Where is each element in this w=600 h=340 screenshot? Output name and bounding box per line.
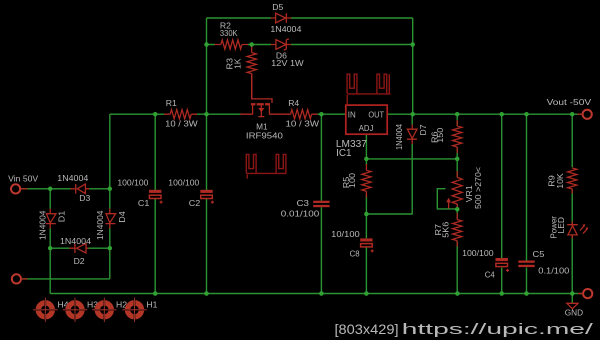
diode D7 xyxy=(394,124,428,150)
zener diode D6 xyxy=(271,39,305,68)
svg-text:C2: C2 xyxy=(189,198,201,208)
LED power xyxy=(548,216,588,239)
resistor R4 xyxy=(285,98,320,129)
mounting hole H2 xyxy=(91,297,127,323)
wire IC1 ADJ line x366.4 xyxy=(365,134,367,214)
svg-text:500 >270<: 500 >270< xyxy=(473,167,483,209)
svg-text:D7: D7 xyxy=(418,124,428,135)
svg-text:[803x429]: [803x429] xyxy=(335,322,399,337)
capacitor C1 xyxy=(117,177,162,208)
wire VR1 R7 line x457 xyxy=(456,159,458,294)
svg-text:5K6: 5K6 xyxy=(441,222,451,238)
wire D4 line x109.8 down to Vin- row xyxy=(109,189,111,279)
wire R9 LED line x572.2 xyxy=(571,114,573,293)
wire C4 line x501.7 xyxy=(501,114,503,293)
wire vertical x109.8 rail to Vin row xyxy=(109,114,111,189)
svg-text:LED: LED xyxy=(556,217,566,234)
svg-text:10/100: 10/100 xyxy=(331,229,360,239)
heatsink for M1 xyxy=(246,154,286,178)
mounting hole H3 xyxy=(62,297,98,323)
svg-text:Vin 50V: Vin 50V xyxy=(8,173,38,183)
wire bottom rail y293.5 xyxy=(50,293,583,295)
svg-text:10 / 3W: 10 / 3W xyxy=(165,119,198,129)
svg-text:12V 1W: 12V 1W xyxy=(271,58,304,68)
svg-text:C1: C1 xyxy=(138,198,150,208)
resistor R9 xyxy=(546,168,577,194)
resistor R7 xyxy=(433,213,462,247)
wire Vin+ row y188.8 xyxy=(21,188,110,190)
svg-text:100/100: 100/100 xyxy=(168,177,199,187)
svg-text:IC1: IC1 xyxy=(336,148,352,159)
svg-text:ADJ: ADJ xyxy=(359,124,374,133)
pad GND with ground symbol xyxy=(565,289,593,317)
resistor R6 xyxy=(430,120,462,153)
svg-text:C3: C3 xyxy=(297,198,310,208)
svg-text:C4: C4 xyxy=(485,269,495,279)
pad Vin+ xyxy=(8,173,38,193)
wire R6 line x457.2 xyxy=(456,114,458,159)
svg-text:150: 150 xyxy=(435,127,445,142)
svg-text:H1: H1 xyxy=(146,299,157,309)
heatsink for IC1 xyxy=(347,74,391,105)
wire C8 line x366.4 xyxy=(365,214,367,294)
wire vertical x412.7 from top rail to main rail xyxy=(412,18,414,114)
diode D3 xyxy=(57,173,90,203)
wire D7 line x412.2 with corner to ADJ node xyxy=(366,114,412,214)
svg-text:IN: IN xyxy=(348,110,356,119)
svg-text:1K: 1K xyxy=(232,58,242,69)
wire main rail OUT to Vout pad xyxy=(387,113,582,115)
wire D1 line x50.2 xyxy=(49,189,51,294)
diode D4 xyxy=(95,209,127,241)
diode D2 xyxy=(60,236,91,266)
transistor M1 IRF9540 xyxy=(240,74,284,141)
svg-text:R4: R4 xyxy=(288,98,299,108)
resistor R1 xyxy=(164,98,199,129)
svg-text:GND: GND xyxy=(565,307,583,317)
svg-text:10K: 10K xyxy=(555,173,565,189)
svg-text:https://upic.me/: https://upic.me/ xyxy=(402,321,594,338)
svg-text:D5: D5 xyxy=(272,2,283,12)
capacitor C3 xyxy=(281,198,330,218)
diode D5 xyxy=(270,2,301,34)
pad Vout xyxy=(547,97,592,119)
svg-text:0.1/100: 0.1/100 xyxy=(538,266,569,276)
wire top rail y18 xyxy=(207,17,413,19)
svg-text:1N4004: 1N4004 xyxy=(95,210,105,240)
capacitor C5 xyxy=(518,249,569,275)
svg-text:OUT: OUT xyxy=(368,110,384,119)
mounting hole H4 xyxy=(32,297,68,323)
resistor R2 xyxy=(215,20,249,49)
svg-text:D3: D3 xyxy=(79,193,90,203)
wire C5 line x526.5 xyxy=(526,114,528,293)
wire D2 row y248.2 xyxy=(50,247,110,249)
wire C3 line x321.4 xyxy=(320,114,322,293)
svg-text:D1: D1 xyxy=(57,211,67,223)
svg-text:C5: C5 xyxy=(533,249,545,259)
svg-text:C8: C8 xyxy=(350,249,360,259)
capacitor C2 xyxy=(168,177,214,208)
wire main rail y114 left part xyxy=(110,113,241,115)
svg-text:1N4004: 1N4004 xyxy=(60,236,91,246)
capacitor C4 xyxy=(462,248,509,279)
svg-text:100/100: 100/100 xyxy=(117,177,148,187)
wire GND stub xyxy=(571,294,573,304)
wire VR1 wiper loop xyxy=(437,189,455,209)
svg-text:10 / 3W: 10 / 3W xyxy=(286,119,320,129)
wire Vin- row y278.9 xyxy=(22,278,110,280)
svg-text:D2: D2 xyxy=(74,256,85,266)
svg-text:1N4004: 1N4004 xyxy=(38,210,48,240)
diode D1 xyxy=(38,209,67,241)
svg-text:1N4004: 1N4004 xyxy=(394,124,404,150)
svg-text:330K: 330K xyxy=(220,28,238,38)
wire ADJ to R6 bottom y158.9 xyxy=(366,158,457,160)
svg-text:IRF9540: IRF9540 xyxy=(246,131,283,141)
svg-text:D4: D4 xyxy=(117,211,127,223)
wire main rail M1 to IC1 xyxy=(285,113,346,115)
svg-text:Vout -50V: Vout -50V xyxy=(547,97,592,107)
capacitor C8 xyxy=(331,229,374,258)
mounting hole H1 xyxy=(122,297,158,323)
resistor R5 xyxy=(341,164,371,198)
IC1 LM337 xyxy=(336,105,387,159)
pad Vin- xyxy=(12,274,28,283)
svg-text:R1: R1 xyxy=(166,98,177,108)
svg-text:100/100: 100/100 xyxy=(462,248,494,258)
svg-text:1N4004: 1N4004 xyxy=(270,24,301,34)
svg-text:100: 100 xyxy=(347,173,357,188)
wire second rail y44.5 xyxy=(207,44,413,46)
wire C1 line x155.2 xyxy=(154,114,156,293)
resistor R3 xyxy=(225,46,257,99)
svg-text:0.01/100: 0.01/100 xyxy=(281,208,320,218)
watermark xyxy=(335,321,595,338)
svg-text:1N4004: 1N4004 xyxy=(57,173,88,183)
potentiometer VR1 xyxy=(446,167,483,209)
wire vertical x206.5 top to bottom xyxy=(206,18,208,294)
